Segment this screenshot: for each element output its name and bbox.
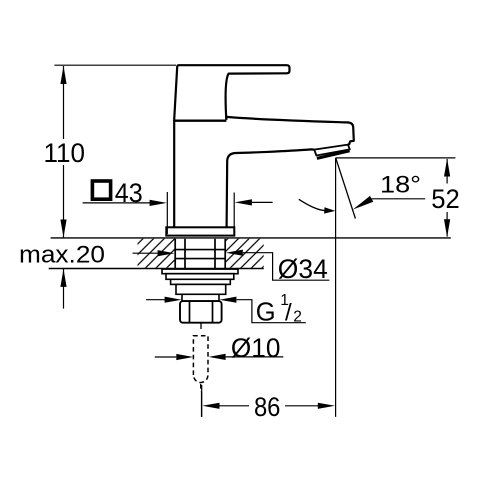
dimension 110 bottom arrow bbox=[60, 220, 66, 238]
aerator bottom face bbox=[317, 151, 350, 159]
svg-text:Ø10: Ø10 bbox=[231, 333, 281, 363]
43 right extension line bbox=[233, 193, 235, 228]
svg-text:Ø34: Ø34 bbox=[278, 254, 328, 284]
hose centre dash bbox=[200, 384, 202, 392]
aerator outlet band bbox=[314, 145, 350, 156]
faucet handle bbox=[174, 65, 289, 119]
faucet body left edge bbox=[173, 120, 175, 228]
washer plate 2 bbox=[166, 274, 234, 280]
svg-text:110: 110 bbox=[43, 138, 85, 168]
18 degree slant line bbox=[336, 158, 356, 218]
diameter 34 left arrow bbox=[133, 252, 159, 254]
svg-text:max.20: max.20 bbox=[19, 242, 105, 269]
dimension 86 line left part bbox=[219, 405, 249, 407]
svg-text:18°: 18° bbox=[380, 172, 421, 199]
18 degree leader arrow bbox=[353, 196, 374, 210]
max.20 bottom arrow bbox=[63, 269, 65, 309]
countertop deck bottom line bbox=[49, 268, 264, 270]
faucet spout top and right edge bbox=[226, 117, 353, 145]
countertop deck top line bbox=[51, 237, 451, 239]
dimension 52 line bbox=[446, 159, 448, 184]
faucet body top edge bbox=[173, 120, 226, 122]
svg-text:43: 43 bbox=[115, 178, 143, 208]
mounting block bbox=[176, 284, 226, 294]
collar band edges bbox=[175, 249, 225, 251]
dimension 110 line bbox=[63, 66, 65, 238]
hex nut facet lines bbox=[189, 302, 191, 323]
svg-text:86: 86 bbox=[254, 392, 281, 422]
faucet spout underside bbox=[227, 149, 315, 227]
dimension 110 label bbox=[41, 139, 88, 165]
countertop hatching right bbox=[225, 239, 264, 268]
svg-text:/: / bbox=[285, 300, 292, 327]
diameter 10 right arrow and leader bbox=[209, 354, 226, 360]
flexible hose dashed outline bbox=[193, 336, 208, 383]
dimension 110 top arrow bbox=[60, 66, 66, 84]
diameter 34 right arrow and leader bbox=[226, 250, 243, 256]
hex nut bbox=[180, 301, 222, 323]
svg-text:52: 52 bbox=[431, 184, 460, 214]
svg-text:G: G bbox=[256, 298, 276, 326]
supply tube walls bbox=[184, 239, 186, 269]
countertop hatching left bbox=[138, 239, 176, 268]
dimension 86 left vertical bbox=[201, 385, 203, 417]
43 leader line with arrow bbox=[83, 202, 151, 204]
43 right arrow bbox=[235, 199, 252, 205]
flow direction arc bbox=[299, 199, 325, 210]
washer plate 1 bbox=[162, 269, 238, 274]
threaded neck bbox=[182, 294, 219, 301]
svg-text:2: 2 bbox=[293, 309, 302, 326]
diameter 10 left arrow bbox=[155, 356, 177, 358]
43 left extension line bbox=[166, 192, 168, 234]
washer plate 3 bbox=[171, 279, 231, 284]
shank sleeve walls bbox=[174, 239, 176, 269]
faucet base flange bbox=[166, 227, 234, 235]
dimension 110 top extension line bbox=[54, 64, 176, 66]
dimension 52 top extension line bbox=[336, 157, 456, 159]
square-43 symbol bbox=[92, 181, 110, 199]
centerline bbox=[201, 392, 203, 417]
G 1/2 left arrow bbox=[146, 299, 165, 301]
G 1/2 right arrow and leader bbox=[219, 297, 236, 303]
vertical extension line from aerator bbox=[335, 158, 337, 417]
dimension 86 line right part bbox=[285, 405, 319, 407]
center tick below nut bbox=[200, 323, 202, 329]
